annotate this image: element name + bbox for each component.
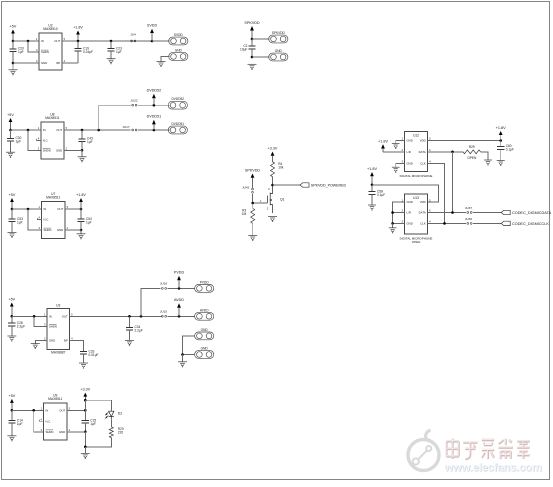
wire R4 to drain node: [272, 177, 274, 185]
svg-text:SPKVDD: SPKVDD: [272, 31, 286, 35]
wire to LED anode: [85, 400, 111, 409]
connector GND: [269, 49, 288, 61]
capacitor C34: [126, 316, 143, 340]
node junction: [251, 38, 254, 41]
node junction: [499, 139, 502, 142]
svg-text:L/R: L/R: [407, 211, 411, 215]
svg-text:+3.3V: +3.3V: [268, 147, 278, 151]
svg-text:CODEC_DIGMICCLK: CODEC_DIGMICCLK: [512, 222, 549, 226]
svg-text:1M: 1M: [242, 212, 247, 216]
svg-text:JU4: JU4: [130, 33, 136, 37]
power flag DVDD51: [147, 115, 162, 130]
jumper JU15: [160, 310, 168, 318]
ground: [31, 344, 40, 349]
wire LED to R20: [110, 419, 112, 427]
net flag CODEC_DIGMICCLK: [501, 221, 549, 226]
wire U8 GND pin: [64, 149, 82, 151]
wire U8 OUT rail: [64, 129, 131, 131]
svg-text:DVDD52: DVDD52: [172, 97, 185, 101]
svg-text:IN: IN: [41, 39, 44, 43]
wire drain to net flag: [273, 184, 301, 186]
svg-text:JU16: JU16: [160, 282, 168, 286]
svg-text:PVDD: PVDD: [200, 280, 210, 284]
svg-text:BP: BP: [64, 339, 68, 343]
capacitor C60: [497, 141, 514, 161]
svg-text:+1.8V: +1.8V: [76, 193, 86, 197]
capacitor C20: [9, 41, 24, 63]
svg-text:+1.8V: +1.8V: [496, 126, 506, 130]
svg-text:JU37: JU37: [465, 206, 473, 210]
svg-text:10µF: 10µF: [240, 47, 247, 51]
LED D2: [106, 410, 123, 420]
capacitor C30: [7, 130, 22, 152]
svg-text:1µF: 1µF: [16, 140, 22, 144]
node junction: [97, 129, 100, 132]
wire C19 to BP: [62, 62, 78, 64]
node junction: [80, 229, 83, 232]
svg-text:MAX8511: MAX8511: [48, 397, 62, 401]
ground: [268, 217, 277, 222]
node junction: [251, 202, 254, 205]
ground: [81, 453, 90, 458]
wire gate node to R3: [252, 203, 254, 208]
capacitor C54: [77, 209, 92, 230]
capacitor C43: [78, 130, 93, 150]
svg-text:CLK: CLK: [420, 222, 426, 226]
wire IN node to U3 SHDN: [34, 316, 47, 326]
node junction: [77, 40, 80, 43]
wire to ground: [84, 447, 86, 453]
capacitor C33: [80, 349, 99, 363]
svg-text:GND: GND: [49, 339, 55, 343]
jumper JU17: [122, 125, 137, 131]
wire U13 L/R to bus: [393, 212, 405, 214]
wire U12 DATA down to U13 DATA: [452, 152, 454, 213]
IC U12 digital microphone: [400, 132, 433, 178]
wire GND connectors bus: [183, 336, 196, 355]
wire branch to JU22: [99, 105, 131, 130]
ground: [178, 362, 187, 367]
wire IN node to U8 SHDN: [28, 130, 41, 150]
node junction: [391, 222, 394, 225]
wire R20 to bottom rail: [85, 438, 111, 447]
power flag SPKVDD: [245, 169, 261, 189]
node junction: [84, 399, 87, 402]
connector GND: [195, 347, 214, 359]
power flag +5V: [7, 113, 14, 130]
ground: [8, 232, 17, 237]
wire GND connector 2: [183, 354, 196, 356]
ground: [392, 144, 400, 149]
watermark logo circle: [408, 430, 439, 471]
connector GND: [195, 328, 214, 340]
ground: [248, 64, 257, 69]
node junction: [33, 315, 36, 318]
svg-text:IN: IN: [46, 408, 49, 412]
jumper JU4: [130, 33, 136, 42]
svg-text:SHDN: SHDN: [44, 228, 52, 232]
ground: [497, 161, 505, 166]
svg-text:1µF: 1µF: [18, 50, 24, 54]
svg-text:1µF: 1µF: [17, 220, 23, 224]
wire U3 GND to ground: [35, 341, 47, 344]
svg-text:D2: D2: [118, 412, 122, 416]
jumper JU16: [160, 282, 168, 290]
power flag PVDD: [174, 271, 185, 289]
wire to ground: [81, 150, 83, 156]
svg-text:DVDD51: DVDD51: [172, 122, 185, 126]
svg-text:OUT: OUT: [62, 314, 68, 318]
wire IN node to SHDN: [28, 41, 39, 52]
capacitor C58: [368, 185, 385, 205]
svg-text:JU42: JU42: [242, 186, 250, 190]
ground: [157, 62, 166, 67]
svg-text:0.1µF: 0.1µF: [377, 193, 385, 197]
svg-text:GND: GND: [201, 347, 209, 351]
wire U12 VDD to +1.8V: [428, 140, 501, 142]
svg-text:1µF: 1µF: [90, 422, 96, 426]
svg-text:10k: 10k: [278, 165, 284, 169]
net flag SPKVDD_POWERED: [300, 183, 347, 188]
power flag SVDD: [147, 24, 158, 41]
svg-text:SPKVDD: SPKVDD: [245, 169, 261, 173]
node junction: [27, 129, 30, 132]
capacitor C23: [107, 41, 122, 59]
svg-text:GND: GND: [57, 228, 63, 232]
connector DVDD52: [168, 97, 187, 109]
power flag +5V: [9, 394, 16, 410]
node junction: [443, 222, 446, 225]
svg-text:+5V: +5V: [7, 113, 14, 117]
svg-text:U3: U3: [56, 304, 60, 308]
capacitor C15: [82, 410, 97, 432]
svg-text:DATA: DATA: [419, 150, 426, 154]
svg-text:GND: GND: [407, 139, 413, 143]
svg-text:2.2µF: 2.2µF: [17, 325, 25, 329]
svg-text:1µF: 1µF: [17, 422, 23, 426]
ground: [125, 340, 134, 345]
power flag +3.3V: [268, 147, 278, 162]
IC U9 MAX8511: [39, 393, 70, 440]
wire +3.3V node down: [84, 400, 86, 410]
node junction: [11, 409, 14, 412]
ground: [392, 167, 400, 172]
svg-text:JU30: JU30: [465, 217, 473, 221]
wire +5V to U2 IN: [13, 40, 39, 42]
svg-text:N.C.: N.C.: [46, 419, 52, 423]
ground: [389, 228, 397, 233]
wire JU22 to DVDD52 connector: [138, 104, 169, 106]
wire U13 DATA to JU37: [428, 212, 467, 214]
power flag +1.8V: [73, 26, 83, 42]
IC U13 digital microphone: [400, 194, 433, 244]
wire U13 pin3 to bus: [393, 222, 405, 224]
node junction: [271, 184, 274, 187]
ground: [484, 160, 492, 165]
wire U12 DATA: [428, 151, 464, 153]
transistor Q1 (NMOS): [253, 185, 285, 213]
node junction: [110, 40, 113, 43]
power flag +1.8V: [378, 139, 388, 151]
svg-text:SPKVDD: SPKVDD: [244, 21, 260, 25]
power flag DVDD52: [147, 89, 162, 106]
svg-text:SHDN: SHDN: [41, 50, 49, 54]
svg-text:+1.8V: +1.8V: [367, 167, 377, 171]
ground: [248, 236, 257, 241]
wire bus to ground: [392, 223, 394, 227]
svg-text:SHDN: SHDN: [49, 325, 57, 329]
svg-text:+3.3V: +3.3V: [80, 388, 90, 392]
wire +1.8V to U13 VDD: [372, 185, 439, 202]
svg-text:SPKVDD_POWERED: SPKVDD_POWERED: [311, 183, 347, 187]
resistor R3: [242, 208, 255, 223]
svg-text:JU15: JU15: [160, 310, 168, 314]
node junction: [11, 315, 14, 318]
svg-text:AVDD: AVDD: [200, 308, 209, 312]
wire U2 OUT rail: [62, 40, 152, 42]
svg-text:DIGITAL MICROPHONE: DIGITAL MICROPHONE: [400, 174, 433, 178]
svg-text:MAX8511: MAX8511: [46, 195, 60, 199]
svg-text:GND: GND: [407, 200, 413, 204]
svg-text:VDD: VDD: [420, 200, 426, 204]
svg-text:1µF: 1µF: [116, 50, 122, 54]
power flag +5V: [9, 193, 16, 209]
svg-text:DATA: DATA: [419, 211, 426, 215]
svg-text:R29: R29: [469, 145, 475, 149]
svg-text:VDD: VDD: [420, 139, 426, 143]
svg-text:0.24µF: 0.24µF: [83, 50, 93, 54]
node junction: [81, 149, 84, 152]
svg-text:SHDN: SHDN: [46, 430, 54, 434]
power flag AVDD: [174, 298, 184, 316]
svg-text:GND: GND: [407, 222, 413, 226]
jumper JU30: [465, 217, 473, 225]
svg-text:+1.8V: +1.8V: [73, 26, 83, 30]
watermark text dianzifashaoyou (stylized): [446, 438, 530, 459]
node junction: [27, 40, 30, 43]
IC U7 MAX8511: [37, 192, 68, 239]
svg-text:GND: GND: [407, 161, 413, 165]
ground: [368, 205, 376, 210]
node junction: [178, 287, 181, 290]
node junction: [391, 211, 394, 214]
connector SVDD: [169, 33, 188, 45]
connector DVDD51: [168, 122, 187, 134]
node junction: [451, 151, 454, 154]
resistor R20: [109, 427, 124, 438]
svg-text:OUT: OUT: [59, 408, 65, 412]
wire R29 to ground: [481, 152, 489, 160]
svg-text:GND: GND: [201, 328, 209, 332]
power flag +5V: [10, 25, 17, 42]
wire +5V to U8 IN: [11, 129, 41, 131]
wire down: [84, 432, 86, 447]
IC U8 MAX8511: [37, 112, 68, 159]
wire JU17 to DVDD51 connector: [138, 129, 169, 131]
connector GND: [169, 49, 188, 61]
capacitor C2: [240, 39, 256, 57]
power flag SPKVDD: [244, 21, 260, 39]
net flag CODEC_DIGMICDATA: [501, 210, 551, 215]
wire JU37 to net flag: [473, 212, 501, 214]
wire to SVDD connector: [152, 40, 169, 42]
node junction: [32, 409, 35, 412]
svg-text:DVDD52: DVDD52: [147, 89, 162, 93]
resistor R29: [463, 145, 481, 160]
svg-text:MAX8887: MAX8887: [51, 351, 66, 355]
svg-text:GND: GND: [56, 148, 62, 152]
svg-text:220: 220: [118, 431, 124, 435]
svg-text:+5V: +5V: [10, 25, 17, 29]
ground: [6, 152, 15, 157]
svg-text:SHDN: SHDN: [43, 148, 51, 152]
wire +1.8V to U12 L/R: [383, 151, 405, 153]
svg-text:www.elecfans.com: www.elecfans.com: [444, 462, 542, 474]
node junction: [12, 62, 15, 65]
ground: [79, 363, 88, 368]
node junction: [27, 208, 30, 211]
wire GND pin U2: [13, 62, 39, 64]
wire IN node to U7 SHDN: [28, 209, 42, 230]
wire +5V to U9 IN: [12, 409, 44, 411]
svg-text:PVDD: PVDD: [174, 271, 185, 275]
svg-text:DVDD51: DVDD51: [147, 115, 162, 119]
svg-text:SVDD: SVDD: [147, 24, 158, 28]
jumper JU22: [130, 99, 138, 107]
node junction: [84, 431, 87, 434]
svg-text:GND: GND: [41, 61, 47, 65]
wire U9 OUT: [67, 409, 85, 411]
svg-text:N.C.: N.C.: [44, 218, 50, 222]
power flag +3.3V: [80, 388, 90, 401]
svg-text:OUT: OUT: [56, 128, 62, 132]
svg-text:+5V: +5V: [8, 298, 15, 302]
jumper JU42: [242, 186, 253, 194]
capacitor C28: [8, 316, 25, 336]
svg-text:MAX8510: MAX8510: [43, 27, 58, 31]
node junction: [128, 315, 131, 318]
svg-text:U13: U13: [413, 196, 419, 200]
ground: [7, 336, 16, 341]
svg-text:GND: GND: [59, 430, 65, 434]
node junction: [81, 129, 84, 132]
ground: [7, 436, 16, 441]
jumper JU37: [465, 206, 473, 214]
wire U12 pin3 to ground: [396, 163, 405, 167]
wire U3 BP to C33: [70, 341, 84, 352]
svg-text:L/R: L/R: [407, 150, 411, 154]
wire U3 OUT rail: [70, 315, 162, 317]
wire GND connector to ground: [161, 57, 169, 62]
wire JU16 to PVDD connector: [167, 287, 194, 289]
svg-text:CODEC_DIGMICDATA: CODEC_DIGMICDATA: [512, 211, 552, 215]
svg-text:+5V: +5V: [9, 394, 16, 398]
svg-text:U12: U12: [413, 133, 419, 137]
svg-text:0.01µF: 0.01µF: [89, 353, 99, 357]
svg-text:+1.8V: +1.8V: [378, 139, 388, 143]
svg-text:MAX8511: MAX8511: [45, 116, 59, 120]
svg-text:IN: IN: [44, 207, 47, 211]
svg-text:IN: IN: [49, 314, 52, 318]
svg-text:SVDD: SVDD: [174, 33, 184, 37]
connector PVDD: [195, 280, 214, 292]
capacitor C53: [8, 209, 23, 232]
wire +5V to U3 IN: [12, 315, 47, 317]
power flag +1.8V: [76, 193, 86, 209]
node junction: [80, 208, 83, 211]
node junction: [153, 104, 156, 107]
wire U13 grounds bus: [393, 202, 405, 223]
node junction: [12, 40, 15, 43]
node junction: [140, 315, 143, 318]
svg-text:2.2µF: 2.2µF: [135, 329, 143, 333]
svg-text:OPEN: OPEN: [412, 240, 421, 244]
svg-text:CLK: CLK: [420, 161, 426, 165]
svg-text:IN: IN: [43, 128, 46, 132]
svg-text:GND: GND: [275, 49, 283, 53]
svg-text:OPEN: OPEN: [467, 156, 477, 160]
svg-text:BP: BP: [56, 61, 60, 65]
node junction: [178, 315, 181, 318]
wire U12 CLK down to U13 CLK: [428, 163, 445, 223]
IC U3 MAX8887: [44, 304, 73, 355]
wire to SPKVDD connector: [252, 38, 269, 40]
node junction: [84, 446, 87, 449]
ground: [107, 59, 116, 64]
svg-text:+5V: +5V: [9, 193, 16, 197]
wire U9 GND pin: [67, 431, 85, 433]
ground: [77, 234, 86, 239]
resistor R4: [271, 162, 284, 177]
IC U2 MAX8510: [36, 23, 66, 70]
connector AVDD: [195, 308, 214, 320]
node junction: [451, 211, 454, 214]
node junction: [181, 353, 184, 356]
svg-text:0.1µF: 0.1µF: [506, 148, 514, 152]
node junction: [151, 40, 154, 43]
power flag +5V: [8, 298, 15, 317]
power flag +1.8V: [496, 126, 506, 141]
ground: [9, 63, 18, 75]
svg-text:OUT: OUT: [57, 207, 63, 211]
svg-text:JU17: JU17: [122, 125, 130, 129]
wire IN node to U9 SHDN: [34, 410, 44, 432]
wire +5V to U7 IN: [12, 208, 42, 210]
wire branch to JU16: [141, 288, 161, 316]
node junction: [11, 208, 14, 211]
wire to GND connector: [252, 56, 269, 58]
wire to ground: [80, 230, 82, 234]
wire U7 OUT: [65, 208, 81, 210]
capacitor C19: [74, 41, 93, 63]
node junction: [9, 129, 12, 132]
wire U13 CLK to JU30: [428, 222, 467, 224]
wire R3 to ground: [252, 223, 254, 235]
wire JU15 to AVDD connector: [167, 315, 194, 317]
svg-text:1µF: 1µF: [86, 220, 92, 224]
svg-text:GND: GND: [175, 49, 183, 53]
svg-text:JU22: JU22: [130, 99, 138, 103]
svg-text:Q1: Q1: [280, 197, 285, 201]
svg-text:N.C.: N.C.: [43, 138, 49, 142]
wire U7 GND pin: [65, 229, 81, 231]
wire JU30 to net flag: [473, 222, 501, 224]
wire JU42 to gate node: [252, 194, 254, 203]
wire U12 pin1 to ground: [396, 141, 405, 144]
power flag +1.8V: [367, 167, 377, 185]
capacitor C14: [8, 410, 23, 435]
svg-text:AVDD: AVDD: [174, 298, 184, 302]
